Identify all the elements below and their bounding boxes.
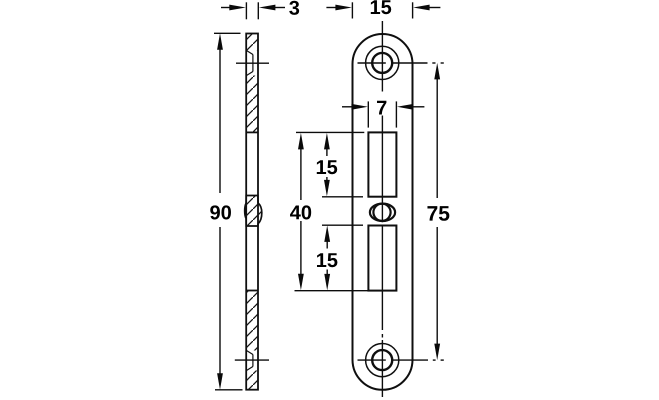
dim 7 label bbox=[377, 101, 386, 115]
cam circle bbox=[373, 204, 390, 221]
dim 15 upper label bbox=[317, 160, 337, 174]
top screw hole outer bbox=[366, 46, 399, 79]
dim 90 label bbox=[210, 205, 231, 219]
bottom screw hole outer bbox=[366, 344, 399, 377]
side view top hole centerline bbox=[236, 62, 269, 64]
top hole horizontal centerline bbox=[358, 62, 444, 64]
side hatch block 2 bbox=[246, 76, 258, 133]
dim 40 label bbox=[290, 205, 311, 219]
left extension line slot bottom bbox=[295, 290, 369, 292]
upper latch slot bbox=[368, 132, 396, 196]
dim 15 lower label bbox=[317, 253, 337, 267]
dim 75 line + arrows bbox=[434, 63, 440, 360]
left extension line upper slot bottom bbox=[322, 196, 363, 198]
dim 15 top label bbox=[371, 0, 391, 14]
dim 3 extension lines bbox=[246, 2, 258, 19]
dim 90 extension line bottom bbox=[215, 389, 243, 391]
side tab bump bbox=[245, 196, 262, 227]
dim 15 top extension lines bbox=[352, 2, 412, 18]
side hatch block top bbox=[247, 34, 258, 55]
bottom screw hole inner bbox=[372, 350, 392, 370]
bottom hole horizontal centerline bbox=[358, 359, 444, 361]
side hatch block 3 bbox=[246, 291, 258, 355]
dim 90 line + arrows bbox=[217, 33, 223, 390]
left extension line slot top bbox=[296, 131, 364, 133]
left extension line lower slot top bbox=[322, 224, 363, 226]
dim 3 label bbox=[289, 1, 299, 15]
top hole cone lower edge bbox=[247, 72, 253, 76]
top hole bore wall bbox=[252, 55, 254, 72]
dim 40 line + arrows bbox=[298, 133, 304, 290]
dim 90 extension line top bbox=[214, 32, 241, 34]
dim 7 right arrow bbox=[397, 104, 425, 110]
side hatch block bottom bbox=[247, 371, 258, 390]
vertical centerline bbox=[381, 21, 383, 397]
bottom hole bore wall bbox=[252, 355, 254, 367]
lower latch slot bbox=[368, 226, 396, 291]
oval adjustment hole bbox=[370, 204, 395, 221]
dim 7 left arrow bbox=[342, 104, 368, 110]
dim 15 top right arrow bbox=[413, 5, 440, 11]
top screw hole inner bbox=[372, 53, 392, 73]
dim 75 label bbox=[427, 206, 449, 221]
dim 15 lower line + arrows bbox=[324, 225, 330, 290]
bottom hole cone lower edge bbox=[247, 367, 253, 371]
dim 3 left arrow bbox=[221, 5, 246, 11]
side plate outline bbox=[246, 34, 258, 390]
dim 15 upper line + arrows bbox=[324, 133, 330, 197]
dim 3 right arrow bbox=[259, 5, 285, 11]
front plate outline bbox=[353, 34, 413, 390]
side view bottom hole centerline bbox=[235, 359, 269, 361]
dim 7 extension lines bbox=[368, 101, 396, 127]
dim 15 top left arrow bbox=[326, 5, 352, 11]
